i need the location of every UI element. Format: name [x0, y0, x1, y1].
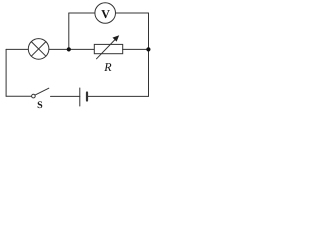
- junction node A (lamp/voltmeter tap): [67, 47, 71, 51]
- rheostat R (resistor box): [94, 44, 122, 53]
- battery cell: long plate (positive): [79, 88, 81, 106]
- wire: battery to bottom-right corner: [88, 95, 148, 97]
- junction node B (rheostat/voltmeter tap): [146, 47, 150, 51]
- wire: voltmeter left lead (top row): [69, 12, 95, 14]
- wire: bottom rail left (to switch): [6, 95, 31, 97]
- switch S (pivot circle and blade): [32, 88, 49, 98]
- svg-text:V: V: [101, 7, 110, 21]
- voltmeter V (meter circle): [95, 3, 116, 24]
- wire: right vertical from voltmeter right lead down to bottom rail: [148, 13, 150, 96]
- svg-text:S: S: [37, 100, 43, 111]
- wire: rheostat right lead to node B: [123, 48, 149, 50]
- lamp (circle with cross): [28, 39, 49, 60]
- wire: left rail from lamp to left vertical: [6, 48, 28, 50]
- rheostat R arrow (slider): [97, 35, 120, 59]
- svg-text:R: R: [103, 60, 112, 74]
- wire: voltmeter right lead (top row): [116, 12, 149, 14]
- wire: left vertical side: [5, 49, 7, 96]
- battery cell: short thick plate (negative): [86, 93, 88, 101]
- wire: drop from voltmeter left lead down to node A: [68, 13, 70, 49]
- wire: switch fixed contact to battery: [51, 95, 80, 97]
- wire: lamp to rheostat (middle row, through node A): [49, 48, 94, 50]
